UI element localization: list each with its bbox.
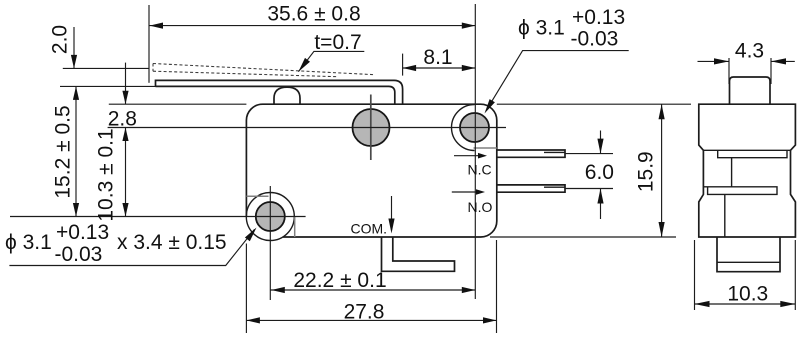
svg-text:+0.13: +0.13 <box>572 6 625 29</box>
extension line hole centre level y127.5 <box>108 127 506 129</box>
dimension 15.2±0.5 line <box>75 86 77 216</box>
svg-text:10.3: 10.3 <box>727 283 768 306</box>
bottom hole vertical centerline <box>269 186 271 300</box>
plunger vertical centerline <box>370 95 372 161</box>
dimension 2.0 upper arrow <box>73 27 75 68</box>
mounting boss bottom-left (full circle r23) <box>246 193 294 241</box>
svg-text:+0.13: +0.13 <box>56 221 109 244</box>
lever arm inner edge <box>156 86 395 104</box>
arrow t=0.7 <box>298 58 310 72</box>
extension line body right down <box>496 240 498 333</box>
svg-text:8.1: 8.1 <box>423 46 452 69</box>
svg-text:COM.: COM. <box>351 221 388 237</box>
dimension 10.3±0.1 line <box>125 128 127 217</box>
svg-text:ϕ 3.1: ϕ 3.1 <box>518 16 565 39</box>
terminal N.C <box>497 150 565 157</box>
dimension 15.9 line <box>661 104 663 237</box>
mounting hole top-right <box>460 113 489 142</box>
extension line top lever level (2.0 top ref) <box>63 67 149 69</box>
side view button <box>730 77 771 104</box>
extension line lever top y86 <box>60 85 156 87</box>
svg-text:15.2 ± 0.5: 15.2 ± 0.5 <box>52 105 75 198</box>
svg-text:ϕ 3.1: ϕ 3.1 <box>5 231 52 254</box>
mounting boss top-right (left half arc) <box>452 105 475 151</box>
COM leader arrow <box>391 196 393 230</box>
svg-text:35.6 ± 0.8: 35.6 ± 0.8 <box>267 3 360 26</box>
svg-text:2.0: 2.0 <box>49 25 72 54</box>
svg-text:6.0: 6.0 <box>585 161 614 184</box>
svg-text:22.2 ± 0.1: 22.2 ± 0.1 <box>293 269 386 292</box>
internal gray edge left of bottom hole <box>246 195 268 197</box>
svg-text:10.3 ± 0.1: 10.3 ± 0.1 <box>95 128 118 221</box>
lever arm outer edge <box>156 80 403 104</box>
leader t=0.7 <box>298 51 364 71</box>
arrows 35.6 <box>150 23 476 29</box>
side view terminal slot 1 <box>703 150 790 157</box>
svg-text:N.C: N.C <box>468 162 492 178</box>
side view foot inner line <box>717 261 780 263</box>
lever free position dashed end cap <box>152 64 154 72</box>
lever free position dashed top <box>153 64 375 75</box>
leader phi top <box>486 51 629 111</box>
terminal N.O notch <box>544 186 565 188</box>
dimension 4.3 arrows <box>698 60 795 62</box>
side view bottom foot <box>717 237 780 272</box>
arrow phi top leader <box>485 99 495 113</box>
extension line body left down <box>245 244 247 334</box>
extension line body top right to side view <box>497 103 691 105</box>
dimension 8.1 line <box>403 67 476 69</box>
switch body outline (front view) <box>246 104 496 237</box>
terminal N.O <box>497 185 565 192</box>
svg-text:15.9: 15.9 <box>635 151 658 192</box>
svg-text:4.3: 4.3 <box>735 40 764 63</box>
mounting hole bottom-left <box>256 202 285 231</box>
lever free position dashed bottom <box>153 71 337 77</box>
dimension 22.2±0.1 line <box>270 289 475 291</box>
svg-text:t=0.7: t=0.7 <box>314 31 361 54</box>
terminal N.C centreline ext <box>565 153 613 155</box>
contact arrow N.O <box>452 191 477 193</box>
side view terminal edge 1 <box>731 158 733 187</box>
dimension 10.3 (side) ext lines <box>695 240 796 310</box>
svg-text:-0.03: -0.03 <box>571 28 619 51</box>
boss shelf line top-right (gray) <box>474 147 497 149</box>
terminal COM (L-shape) <box>382 237 455 271</box>
terminal N.C notch <box>544 151 565 153</box>
lever pivot dome <box>274 87 300 104</box>
terminal N.O centreline ext <box>565 188 613 190</box>
svg-text:x 3.4 ± 0.15: x 3.4 ± 0.15 <box>117 231 227 254</box>
side view terminal edge 2 <box>724 194 726 237</box>
side view terminal slot 2 <box>703 187 777 195</box>
svg-text:N.O: N.O <box>468 199 493 215</box>
extension line 35.6 left x149 <box>148 5 150 83</box>
dimension 35.6±0.8 line <box>149 25 475 27</box>
extension line bottom hole centre y216.5 <box>10 216 306 218</box>
dimension 2.8 upper arrow <box>125 63 127 105</box>
extension line x475 through top-right hole <box>474 4 476 299</box>
extension line body bottom right to side view <box>490 236 676 238</box>
dimension 27.8 line <box>246 319 496 321</box>
dimension 6.0 arrows <box>600 131 602 154</box>
contact arrow N.C <box>454 155 479 157</box>
plunger circle <box>353 109 390 146</box>
svg-text:2.8: 2.8 <box>108 108 137 131</box>
dimension 4.3 ext lines <box>729 58 771 84</box>
arrow bottom left leader <box>245 228 257 242</box>
svg-text:-0.03: -0.03 <box>55 243 103 266</box>
internal gray edge right of bottom hole <box>294 217 296 238</box>
arrows 8.1 <box>403 65 476 71</box>
dimension 10.3 (side) line <box>695 303 796 305</box>
leader bottom left label <box>9 229 254 265</box>
extension line body top left <box>109 103 247 105</box>
extension line 8.1 left <box>402 54 404 76</box>
svg-text:27.8: 27.8 <box>344 300 385 323</box>
side view body outline <box>699 104 796 237</box>
